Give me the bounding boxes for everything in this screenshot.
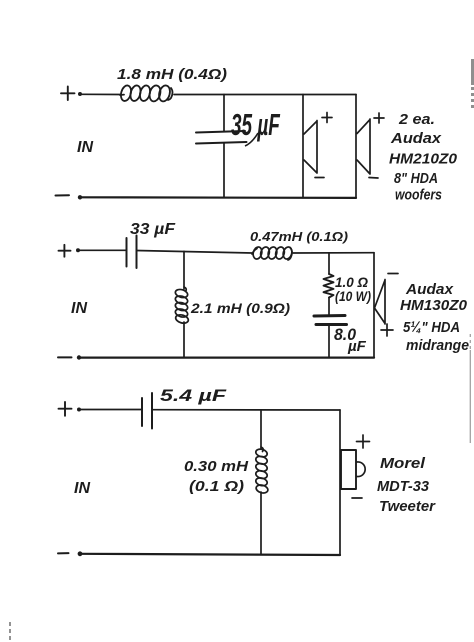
inductor L2 2.1mH coil [174,287,189,325]
minus terminal (top section input -) [56,194,70,196]
node dot top - [78,195,82,199]
inductor L4 0.30mH coil [255,447,269,494]
minus label SP4 [352,497,362,499]
handwritten labels [71,66,469,515]
svg-text:IN: IN [74,480,90,497]
plus terminal (top section input +) [61,87,75,101]
capacitor C2 33uF plates [127,236,137,269]
wire branch L2 vertical upper [183,251,185,289]
wire branch L4 vertical upper [260,410,262,449]
svg-text:1.8 mH (0.4Ω): 1.8 mH (0.4Ω) [117,66,227,83]
svg-text:5¼" HDA: 5¼" HDA [403,320,460,336]
svg-text:Audax: Audax [390,130,442,147]
minus label SP3 [388,273,398,275]
svg-text:1.0 Ω: 1.0 Ω [335,274,368,290]
inductor L3 0.47mH coil [252,246,293,260]
wire + to cap C2 [80,249,126,251]
wire cap C1 branch upper [223,95,225,132]
svg-text:5.4 µF: 5.4 µF [160,386,227,405]
mid right edge down [373,253,375,358]
speaker SP1 woofer inside box [304,121,317,174]
plus label SP1 [322,113,332,123]
wire cap C4 to right edge [152,409,340,411]
capacitor C4 5.4uF plates [142,393,152,429]
node dot top + [78,92,82,96]
wire cap C2 to inductor L3 [137,251,253,254]
scan artifact grey bar top right [471,59,474,110]
node dot bottom + [77,408,81,412]
wire branch L4 vertical lower [260,492,262,554]
svg-text:Morel: Morel [380,455,426,472]
svg-text:IN: IN [77,139,93,156]
wire branch L2 vertical lower [183,322,185,358]
svg-text:0.30 mH: 0.30 mH [184,459,249,475]
svg-text:33 µF: 33 µF [130,221,176,238]
scan artifact grey line mid right [469,334,471,443]
svg-text:µF: µF [347,338,367,355]
wire bottom rail tweeter section [80,554,340,555]
plus terminal (mid section input +) [59,245,71,257]
plus label SP3 [381,324,393,336]
svg-text:midrange: midrange [406,337,469,354]
svg-text:2.1 mH (0.9Ω): 2.1 mH (0.9Ω) [190,300,290,316]
svg-text:8" HDA: 8" HDA [394,170,438,187]
speaker SP2 woofer outside box [357,119,370,174]
svg-text:HM130Z0: HM130Z0 [400,297,468,314]
capacitor C3 8uF plates [314,316,347,325]
tweeter SP4 body [341,450,356,489]
bottom right edge down [339,410,341,555]
wire L3 to right edge [293,252,374,254]
svg-text:HM210Z0: HM210Z0 [389,151,458,168]
svg-text:Audax: Audax [405,281,454,298]
wire + to cap C4 [81,409,142,411]
label 35 uF [231,106,281,141]
minus label SP1 [315,177,324,179]
wire + to inductor [82,93,121,95]
capacitor C1 35uF plates [196,131,247,144]
svg-text:woofers: woofers [395,187,442,204]
woofer box right edge [355,95,357,198]
plus label SP4 [357,435,370,448]
wire bottom rail mid section [79,357,374,359]
wire R1 to C3 top plate [328,298,330,316]
minus terminal (bottom section input -) [58,552,69,554]
svg-text:IN: IN [71,300,87,317]
resistor R1 1.0 ohm zigzag [324,274,334,298]
svg-text:2 ea.: 2 ea. [398,111,435,128]
minus terminal (mid section input -) [58,356,72,358]
node dot mid - [77,355,81,359]
plus terminal (bottom section input +) [59,402,72,416]
wire bottom rail top section [80,196,356,199]
plus label SP2 [374,113,384,123]
wire inductor to box (top rail) [174,94,356,96]
svg-text:Tweeter: Tweeter [379,498,436,515]
woofer box left edge [302,95,304,198]
svg-text:(10 W): (10 W) [335,289,371,304]
wire R1 branch upper [328,253,330,274]
svg-text:0.47mH (0.1Ω): 0.47mH (0.1Ω) [250,229,348,244]
scan artifact dashes bottom left [9,622,11,642]
tweeter SP4 dome [357,462,365,477]
wire C3 to bottom rail [328,326,330,358]
node dot mid + [76,248,80,252]
node dot bottom - [78,551,83,556]
speaker SP3 midrange [375,280,386,325]
svg-text:(0.1 Ω): (0.1 Ω) [189,479,244,495]
svg-text:MDT-33: MDT-33 [377,478,430,495]
tail under uF [245,133,258,146]
inductor L1 1.8mH coil [119,84,172,102]
wire cap C1 branch lower [223,143,225,198]
minus label SP2 [369,177,378,180]
